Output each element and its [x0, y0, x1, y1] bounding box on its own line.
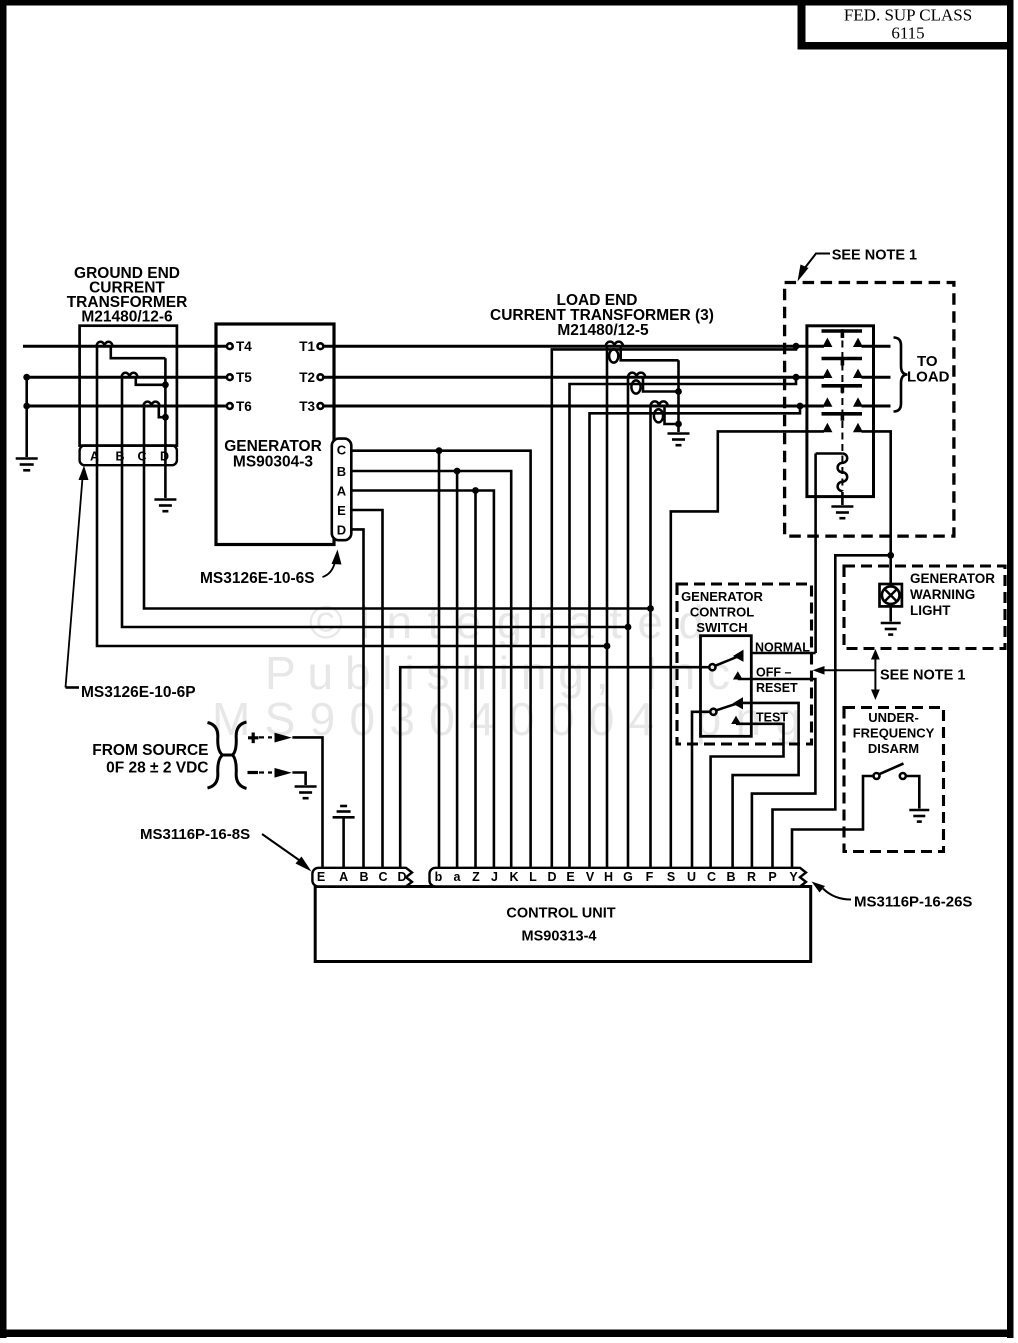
node pole-4 output junction	[887, 552, 894, 559]
svg-text:G: G	[623, 870, 633, 884]
svg-text:GENERATOR: GENERATOR	[910, 571, 995, 586]
CT3 ground-end coil bumps	[144, 402, 160, 406]
CT1 ground-end coil bumps	[97, 342, 113, 346]
lamp warning light	[880, 584, 902, 606]
contactor contacts pole 2	[824, 370, 862, 377]
transformer load CT1	[606, 342, 623, 347]
node tap phase C	[797, 403, 804, 410]
wire load CT2 left lead to G (junction with ground CT B)	[627, 377, 630, 868]
connector strip MS3116P-16-8S (E A B C D)	[312, 868, 412, 887]
svg-text:CONTROL: CONTROL	[690, 605, 754, 620]
wire phase B left segment	[24, 376, 227, 379]
switch body box	[701, 636, 752, 737]
ground (below D column)	[154, 500, 176, 512]
wire UF switch to Y terminal	[792, 776, 874, 869]
wire terminal A to ground	[342, 819, 345, 869]
wire D column to ground	[164, 358, 167, 498]
wire switch 1 pivot to control unit D	[400, 667, 709, 868]
wire/arrow see note 1 to control switch	[824, 669, 875, 671]
generator control switch dashed enclosure	[677, 584, 812, 744]
wire b vertical	[438, 451, 441, 869]
ground (warning light)	[881, 623, 901, 635]
svg-text:T1: T1	[299, 339, 315, 354]
node junction F	[647, 605, 654, 612]
control unit box	[315, 887, 811, 962]
svg-text:E: E	[566, 870, 574, 884]
svg-text:SEE NOTE 1: SEE NOTE 1	[880, 668, 965, 684]
wire load CT1 right lead to common bus	[621, 346, 679, 360]
svg-text:b: b	[435, 870, 443, 884]
svg-text:6115: 6115	[891, 24, 924, 43]
svg-text:B: B	[337, 464, 346, 479]
wire load CT3 right lead to common bus	[665, 406, 679, 424]
svg-text:GENERATOR: GENERATOR	[224, 438, 322, 455]
wire tap phase C to terminal V	[590, 406, 801, 869]
contact NORMAL	[734, 651, 743, 662]
label ground-end CT	[67, 265, 188, 326]
label MS3126E-10-6P with leader arrow	[66, 686, 80, 689]
node junction H	[604, 643, 611, 650]
label generator warning light	[910, 571, 995, 618]
svg-text:M21480/12-5: M21480/12-5	[557, 322, 649, 339]
svg-text:MS90304-3: MS90304-3	[233, 454, 314, 471]
svg-text:C: C	[378, 870, 387, 884]
svg-text:RESET: RESET	[756, 681, 798, 695]
wire phase C left segment	[24, 405, 227, 408]
svg-text:MS90313-4: MS90313-4	[522, 929, 597, 945]
svg-text:SWITCH: SWITCH	[696, 620, 747, 635]
wire generator D to control unit B	[351, 529, 363, 868]
label control unit	[506, 906, 615, 945]
watermark	[212, 596, 801, 745]
wire NORMAL contact to coil lead	[751, 652, 815, 655]
terminal T6	[227, 403, 233, 409]
transformer ground-end CT box	[80, 326, 177, 446]
svg-text:E: E	[337, 503, 346, 518]
wire generator A to J terminal (junction Z)	[351, 491, 494, 869]
generator box MS90304-3	[216, 324, 334, 545]
wire TEST upper contact to B terminal	[733, 703, 799, 869]
wire pole 4 output to warning light and P	[773, 431, 891, 868]
contact OFF-RESET	[734, 672, 742, 679]
svg-text:FED. SUP CLASS: FED. SUP CLASS	[844, 6, 972, 25]
CT2 ground-end coil bumps	[122, 373, 138, 377]
node junction G	[625, 624, 632, 631]
svg-text:TEST: TEST	[756, 711, 788, 725]
svg-text:D: D	[337, 523, 346, 538]
svg-text:S: S	[667, 870, 675, 884]
svg-text:J: J	[491, 870, 498, 884]
svg-text:M21480/12-6: M21480/12-6	[81, 309, 173, 326]
warning light dashed enclosure	[844, 566, 1005, 649]
svg-text:LOAD: LOAD	[907, 369, 950, 386]
svg-text:MS3126E-10-6S: MS3126E-10-6S	[200, 570, 315, 587]
svg-text:U: U	[687, 870, 696, 884]
svg-text:D: D	[397, 870, 406, 884]
connector strip MS3116P-16-26S (b a Z J K L D E V H G F S U C B R P Y)	[430, 868, 807, 887]
source bowtie brace	[208, 723, 223, 789]
label generator control switch	[681, 589, 763, 635]
wire S terminal to contactor pole 4	[671, 431, 824, 868]
wire CT3 lead to D column	[159, 406, 166, 417]
svg-text:WARNING: WARNING	[910, 587, 975, 602]
svg-text:OFF –: OFF –	[756, 666, 791, 680]
wire dashed arrow minus	[259, 771, 272, 773]
svg-text:DISARM: DISARM	[868, 741, 919, 756]
coil contactor operating coil	[816, 452, 843, 455]
contactor contacts pole 1	[824, 339, 862, 346]
svg-text:T5: T5	[236, 370, 252, 385]
svg-text:T3: T3	[299, 399, 315, 414]
label under-frequency disarm	[853, 710, 935, 756]
svg-text:K: K	[509, 870, 518, 884]
wire generator C to L terminal (junction b)	[351, 451, 530, 869]
svg-text:Y: Y	[789, 870, 798, 884]
svg-text:H: H	[604, 870, 613, 884]
ground (under-frequency)	[909, 810, 929, 822]
svg-text:C: C	[707, 870, 716, 884]
wire coil lead down to NORMAL contact	[814, 454, 817, 654]
wire CT1 lead to D column	[111, 346, 166, 358]
ground (above terminal A, inverted)	[333, 806, 355, 817]
contact TEST lower	[732, 717, 740, 724]
wire left ground drop	[25, 377, 28, 457]
svg-text:P: P	[768, 870, 776, 884]
wire phase C right segment (T3 to contactor)	[323, 405, 824, 408]
switch 1 pivot (normal/off-reset)	[709, 664, 715, 670]
svg-text:MS3116P-16-26S: MS3116P-16-26S	[854, 894, 972, 911]
ground (source minus)	[295, 787, 317, 799]
svg-text:E: E	[317, 870, 325, 884]
node phase C left junction	[23, 403, 30, 410]
wire coil bottom to ground	[841, 492, 844, 505]
contactor contacts pole 3	[824, 399, 862, 406]
svg-text:B: B	[726, 870, 735, 884]
transformer load CT2	[628, 373, 645, 378]
wire Z vertical	[474, 491, 477, 869]
wire CT2 lead to B column	[122, 377, 628, 627]
wire source plus to E terminal	[292, 737, 322, 868]
wire a vertical	[456, 471, 459, 869]
contactor bridge bar pole 4	[822, 414, 863, 421]
svg-text:MS3116P-16-8S: MS3116P-16-8S	[140, 826, 250, 843]
node bus junction CT3	[675, 421, 682, 428]
svg-text:UNDER-: UNDER-	[868, 710, 919, 725]
terminal T5	[227, 374, 233, 380]
svg-text:Z: Z	[472, 870, 480, 884]
svg-text:TO: TO	[917, 353, 938, 370]
label load-end CT	[490, 292, 714, 339]
svg-text:B: B	[115, 450, 124, 464]
terminal T1	[318, 343, 324, 349]
terminal T2	[318, 374, 324, 380]
contactor dashed enclosure (see note 1)	[785, 283, 954, 537]
wire pole 1 output	[862, 345, 891, 348]
svg-text:V: V	[586, 870, 595, 884]
wire OFF-RESET contact to R terminal	[738, 679, 816, 869]
svg-text:a: a	[454, 870, 462, 884]
svg-text:A: A	[90, 450, 99, 464]
transformer load CT3	[651, 401, 668, 406]
minus terminal	[248, 771, 259, 774]
node junction C-b	[436, 447, 443, 454]
wire TEST lower contact to C terminal	[711, 724, 784, 869]
contact TEST upper	[734, 698, 743, 709]
svg-text:T6: T6	[236, 399, 252, 414]
svg-text:0F 28 ± 2 VDC: 0F 28 ± 2 VDC	[106, 760, 208, 777]
svg-text:T2: T2	[299, 370, 315, 385]
wire generator B to K terminal (junction a)	[351, 471, 511, 869]
wire source minus to ground	[292, 773, 305, 786]
wire generator E to control unit C	[351, 510, 382, 869]
svg-text:A: A	[339, 870, 348, 884]
node tap phase A	[793, 343, 800, 350]
svg-text:F: F	[646, 870, 654, 884]
svg-text:D: D	[160, 450, 169, 464]
svg-text:R: R	[747, 870, 756, 884]
svg-text:A: A	[337, 484, 347, 499]
node D column junction B lead	[162, 381, 169, 388]
svg-text:MS3126E-10-6P: MS3126E-10-6P	[81, 684, 196, 701]
svg-text:SEE NOTE 1: SEE NOTE 1	[832, 248, 917, 264]
svg-text:C: C	[137, 450, 146, 464]
wire CT1 lead to A column	[97, 346, 607, 646]
brace to load	[894, 338, 908, 412]
wire lamp to ground	[889, 607, 892, 622]
svg-text:FREQUENCY: FREQUENCY	[853, 726, 935, 741]
contactor bridge bar pole 1	[822, 331, 863, 338]
svg-text:CONTROL UNIT: CONTROL UNIT	[506, 906, 615, 922]
wire pole 3 output	[862, 405, 891, 408]
wire load CT1 left lead to H (junction with ground CT A)	[606, 346, 609, 868]
under-frequency disarm dashed enclosure	[844, 708, 944, 852]
svg-text:©Integrated: ©Integrated	[309, 596, 704, 648]
wire switch 2 pivot to U terminal	[692, 712, 710, 869]
wire phase A right segment (T1 to contactor)	[323, 345, 824, 348]
wire phase B right segment (T2 to contactor)	[323, 376, 824, 379]
wire tap phase A to terminal D	[552, 346, 796, 868]
wire UF switch to ground	[906, 776, 920, 809]
contactor bridge bar pole 2	[822, 359, 863, 366]
ground (left source ground)	[16, 459, 38, 471]
node tap phase B	[793, 374, 800, 381]
svg-text:FROM SOURCE: FROM SOURCE	[92, 742, 208, 759]
connector strip A B C D of ground-end CT	[80, 446, 177, 466]
label FROM SOURCE 0F 28 ± 2 VDC	[92, 742, 208, 777]
wire dashed arrow plus	[259, 736, 272, 738]
node bus junction CT2	[675, 388, 682, 395]
svg-text:T4: T4	[236, 339, 252, 354]
wire phase A left segment	[23, 345, 227, 348]
ground (contactor coil)	[831, 507, 853, 519]
contactor center dashed line	[841, 329, 843, 491]
switch 2 pivot (test)	[710, 709, 716, 715]
node junction B-a	[454, 468, 461, 475]
svg-text:L: L	[529, 870, 537, 884]
svg-text:GENERATOR: GENERATOR	[681, 589, 763, 604]
node junction A-Z	[472, 487, 479, 494]
node phase B left junction	[23, 374, 30, 381]
label TO LOAD	[907, 353, 950, 386]
switch under-frequency contact	[874, 773, 880, 779]
contactor contacts pole 4	[824, 425, 862, 432]
svg-text:C: C	[337, 443, 347, 458]
connector MS3126E-10-6S (C B A E D)	[332, 439, 352, 541]
contactor bridge bar pole 3	[822, 386, 863, 393]
node D column junction C lead	[162, 414, 169, 421]
wire tap phase B to terminal E	[570, 377, 797, 868]
svg-text:D: D	[547, 870, 556, 884]
svg-text:B: B	[359, 870, 368, 884]
title block FED. SUP CLASS 6115	[798, 2, 1014, 50]
wire CT3 lead to C column	[144, 406, 651, 609]
svg-text:LIGHT: LIGHT	[910, 603, 951, 618]
contactor body box	[807, 326, 874, 497]
plus terminal	[248, 733, 259, 744]
svg-text:NORMAL: NORMAL	[755, 641, 810, 655]
wire common CT bus	[677, 360, 680, 432]
wire load CT2 right lead to common bus	[643, 377, 679, 391]
terminal T4	[227, 343, 233, 349]
wire pole 2 output	[862, 376, 891, 379]
wire load CT3 left lead to F (junction with ground CT C)	[649, 406, 652, 869]
ground (CT common bus)	[668, 434, 690, 446]
wire CT2 lead to D column	[136, 377, 166, 385]
terminal T3	[318, 403, 324, 409]
